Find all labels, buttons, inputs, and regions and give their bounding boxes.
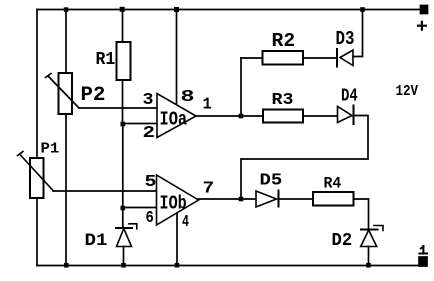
junction dot top rail at R1 xyxy=(120,7,125,12)
junction dot top rail at line B xyxy=(64,7,69,12)
junction dot node pin6 xyxy=(121,206,126,211)
junction dot top rail at pin8 xyxy=(174,7,179,12)
junction dot bottom rail at D2 xyxy=(366,263,371,268)
svg-text:R3: R3 xyxy=(272,91,294,110)
wire top positive rail xyxy=(37,9,421,11)
wire R1 bottom to pin2 node xyxy=(122,80,124,124)
wire left vertical (line A) upper xyxy=(36,10,38,159)
resistor R1 xyxy=(117,42,131,80)
svg-text:2: 2 xyxy=(143,124,156,143)
terminal - (bottom right) xyxy=(419,257,427,266)
zener diode D1 xyxy=(116,224,137,247)
svg-text:4: 4 xyxy=(182,213,189,232)
svg-text:12V: 12V xyxy=(396,83,419,100)
wire left vertical (line A) lower xyxy=(36,198,38,266)
diode D5 xyxy=(256,191,279,208)
wire bottom negative rail xyxy=(37,265,420,267)
wire R1 top (top rail to R1) xyxy=(122,10,124,43)
wire D5 to R4 xyxy=(279,198,314,200)
wire line B lower (P2 to bottom rail) xyxy=(65,114,67,266)
wire R3 to D4 xyxy=(303,115,338,117)
svg-text:R1: R1 xyxy=(96,50,116,70)
op-amp IOa xyxy=(157,94,196,138)
wire pin4 (IOb to bottom rail) xyxy=(176,214,178,266)
wire R4 right down to D2 xyxy=(354,199,369,229)
wire line B upper (top rail to P2) xyxy=(65,10,67,74)
wire node to D5 xyxy=(241,198,256,200)
op-amp IOb xyxy=(157,175,199,225)
wire D4 right, down and across to IOb output node xyxy=(241,116,368,200)
wire IOb output xyxy=(199,198,242,200)
wire pin2 stub xyxy=(123,123,158,125)
junction dot IOa output node xyxy=(239,114,244,119)
wire D3 to top rail xyxy=(353,10,363,57)
junction dot bottom rail at D1 xyxy=(121,263,126,268)
potentiometer P1 xyxy=(18,152,54,199)
resistor R2 xyxy=(263,51,304,65)
wire D2 to bottom rail xyxy=(368,247,370,266)
svg-text:5: 5 xyxy=(145,173,157,192)
svg-text:7: 7 xyxy=(203,180,215,199)
potentiometer P2 xyxy=(46,73,80,114)
svg-text:D2: D2 xyxy=(332,231,353,251)
wire pin8 (top rail to IOa) xyxy=(176,10,178,106)
svg-text:D4: D4 xyxy=(341,87,358,107)
svg-text:D3: D3 xyxy=(336,28,355,50)
svg-text:P2: P2 xyxy=(81,84,106,107)
junction dot top rail at D3 xyxy=(360,7,365,12)
label + xyxy=(418,22,426,30)
svg-text:1: 1 xyxy=(203,96,212,115)
wire pin5 (P1 wiper to IOb) xyxy=(53,190,157,192)
resistor R4 xyxy=(313,192,354,206)
wire pin2/pin6 vertical down to D1 xyxy=(122,124,124,228)
wire R2 left xyxy=(241,57,263,59)
svg-text:P1: P1 xyxy=(41,141,60,158)
wire D1 to bottom rail xyxy=(123,247,125,266)
svg-text:8: 8 xyxy=(181,88,195,107)
wire pin6 stub xyxy=(123,207,157,209)
terminal + (top right) xyxy=(421,6,428,14)
svg-text:3: 3 xyxy=(143,91,154,110)
svg-text:R2: R2 xyxy=(272,30,296,52)
wire R2 to D3 xyxy=(303,57,337,59)
wire R2/R3 left vertical xyxy=(240,58,242,116)
svg-text:IOa: IOa xyxy=(160,109,188,131)
wire pin3 (P2 wiper to IOa) xyxy=(79,107,157,109)
junction dot bottom rail at line B xyxy=(64,263,69,268)
svg-text:6: 6 xyxy=(146,209,154,228)
diode D3 xyxy=(337,49,353,67)
junction dot IOb output node xyxy=(239,197,244,202)
wire IOa output xyxy=(196,115,241,117)
label perpendicular mark xyxy=(420,246,428,254)
junction dot bottom rail at pin4 xyxy=(175,263,180,268)
junction dot node pin2 xyxy=(121,122,126,127)
wire R3 left xyxy=(241,115,263,117)
resistor R3 xyxy=(263,110,303,123)
svg-text:D1: D1 xyxy=(85,231,108,251)
svg-text:IOb: IOb xyxy=(160,193,187,215)
zener diode D2 xyxy=(361,226,383,247)
svg-text:R4: R4 xyxy=(324,175,342,193)
diode D4 xyxy=(338,106,354,125)
svg-text:D5: D5 xyxy=(260,172,283,191)
